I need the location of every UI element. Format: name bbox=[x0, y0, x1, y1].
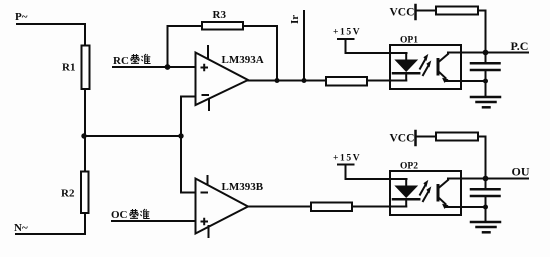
svg-text:VCC: VCC bbox=[390, 7, 415, 19]
svg-text:Ir: Ir bbox=[289, 15, 301, 24]
svg-text:LM393A: LM393A bbox=[222, 54, 264, 66]
svg-text:P~: P~ bbox=[15, 11, 28, 23]
svg-text:LM393B: LM393B bbox=[222, 181, 264, 193]
svg-text:OU: OU bbox=[512, 165, 530, 179]
svg-text:+15V: +15V bbox=[333, 28, 361, 38]
svg-text:P.C: P.C bbox=[511, 39, 529, 53]
svg-text:OP2: OP2 bbox=[400, 162, 418, 172]
svg-text:R2: R2 bbox=[61, 188, 75, 200]
svg-text:OC: OC bbox=[111, 209, 128, 221]
svg-text:+15V: +15V bbox=[333, 154, 361, 164]
svg-text:OP1: OP1 bbox=[400, 36, 418, 46]
svg-text:RC: RC bbox=[113, 55, 129, 67]
svg-text:R3: R3 bbox=[213, 9, 227, 21]
svg-text:VCC: VCC bbox=[390, 133, 415, 145]
svg-text:N~: N~ bbox=[14, 222, 28, 234]
svg-text:R1: R1 bbox=[62, 62, 75, 74]
